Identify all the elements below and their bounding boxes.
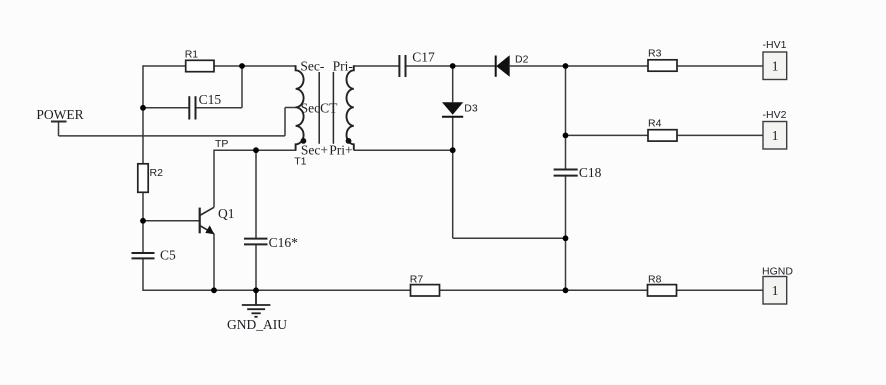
svg-text:R8: R8	[648, 274, 662, 286]
diode D2	[495, 56, 497, 77]
svg-text:D3: D3	[464, 103, 478, 115]
node bus R4	[563, 133, 569, 139]
wire R4 row left	[566, 134, 649, 136]
svg-text:C18: C18	[579, 165, 602, 180]
capacitor C5	[132, 253, 155, 258]
transistor Q1	[200, 206, 235, 234]
wire Pri- to C17	[354, 65, 400, 67]
wire R8 to HGND	[677, 289, 763, 291]
node Pri+/D3	[450, 147, 456, 153]
wire Pri+ row	[354, 149, 453, 151]
resistor R1	[186, 60, 214, 71]
wire C15 row right	[196, 107, 243, 109]
node C15 left	[140, 105, 146, 111]
svg-text:1: 1	[772, 128, 779, 143]
wire TP row to Sec+	[214, 149, 296, 151]
wire SecCT stub	[285, 107, 296, 109]
svg-text:HGND: HGND	[762, 266, 793, 278]
wire Q1 collector vertical	[213, 150, 215, 208]
resistor R8	[648, 285, 677, 296]
wire bottom rail left	[143, 289, 411, 291]
T1 phase dot secondary	[301, 138, 307, 144]
svg-text:T1: T1	[294, 156, 306, 168]
wire top rail left	[143, 65, 186, 67]
wire C16 lower vertical	[255, 244, 257, 291]
wire top rail right of R1	[214, 65, 296, 67]
ground GND_AIU symbol	[242, 290, 271, 317]
node bus jog	[563, 235, 569, 241]
svg-text:Q1: Q1	[218, 206, 235, 221]
wire Q1 emitter vertical	[213, 234, 215, 290]
capacitor C18	[554, 170, 578, 176]
svg-text:TP: TP	[215, 138, 228, 150]
svg-text:Sec-: Sec-	[300, 59, 324, 74]
svg-text:Pri-: Pri-	[333, 59, 354, 74]
svg-text:R7: R7	[410, 274, 424, 286]
T1 phase dot primary	[346, 138, 352, 144]
resistor R2	[138, 164, 148, 193]
transformer T1 secondary winding	[296, 65, 304, 150]
node base	[140, 218, 146, 224]
wire R4 to -HV2	[677, 134, 763, 136]
wire R3 to -HV1	[677, 65, 763, 67]
wire C17 to D2	[406, 65, 496, 67]
svg-text:C5: C5	[160, 248, 176, 263]
svg-text:D2: D2	[515, 54, 529, 66]
svg-text:R1: R1	[185, 49, 199, 61]
node bus top	[563, 63, 569, 69]
svg-text:-HV2: -HV2	[763, 109, 787, 121]
connector HGND	[763, 277, 787, 305]
svg-text:R2: R2	[150, 167, 164, 179]
svg-text:C16*: C16*	[269, 235, 299, 250]
svg-text:R3: R3	[648, 47, 662, 59]
svg-text:Pri+: Pri+	[329, 142, 352, 157]
transformer T1 core line 2	[332, 72, 334, 144]
wire Q1 base row	[143, 220, 200, 222]
wire C16 upper vertical	[255, 150, 257, 238]
capacitor C15	[189, 96, 195, 119]
svg-text:1: 1	[772, 59, 779, 74]
node ground junction	[253, 287, 259, 293]
port POWER bar	[51, 121, 67, 123]
wire bus upper	[565, 66, 567, 170]
wire D3 anode vertical	[452, 66, 454, 102]
resistor R7	[411, 285, 440, 296]
wire SecCT vertical	[284, 108, 286, 136]
node emitter bottom	[211, 287, 217, 293]
transformer T1 primary winding	[347, 65, 354, 150]
connector -HV2	[763, 122, 787, 150]
wire bus lower	[565, 176, 567, 291]
resistor R4	[648, 130, 677, 141]
svg-text:SecCT: SecCT	[301, 100, 338, 115]
wire D2 to R3	[510, 65, 648, 67]
wire D3 cathode vertical	[452, 117, 454, 151]
wire POWER stem	[58, 122, 60, 136]
node TP junction	[253, 147, 259, 153]
wire R7 to bus	[440, 289, 566, 291]
svg-text:1: 1	[772, 283, 779, 298]
svg-text:C17: C17	[412, 50, 435, 65]
wire left vertical lower	[142, 258, 144, 291]
svg-text:GND_AIU: GND_AIU	[227, 317, 287, 332]
svg-text:R4: R4	[648, 118, 662, 130]
wire bus to R8	[566, 289, 648, 291]
svg-text:POWER: POWER	[36, 107, 83, 122]
capacitor C17	[399, 55, 405, 77]
resistor R3	[648, 60, 677, 71]
wire jog to bus	[453, 237, 566, 239]
wire C15 row left	[143, 107, 189, 109]
wire D3 leg down	[452, 150, 454, 238]
wire R1 to C15 vertical	[241, 66, 243, 108]
node bus bottom	[563, 287, 569, 293]
svg-text:C15: C15	[199, 92, 222, 107]
diode D3	[442, 102, 463, 115]
node R1/C15	[239, 63, 245, 69]
svg-text:-HV1: -HV1	[763, 39, 787, 51]
connector -HV1	[763, 52, 787, 80]
wire left vertical upper	[142, 65, 144, 253]
wire POWER horizontal	[59, 135, 286, 137]
transformer T1 core line 1	[318, 72, 320, 144]
capacitor C16*	[244, 239, 268, 245]
node C17/D3	[450, 63, 456, 69]
